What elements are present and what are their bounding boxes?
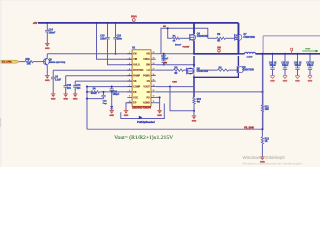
svg-text:104: 104 <box>67 87 72 90</box>
svg-text:19: 19 <box>153 58 155 60</box>
svg-text:100nF: 100nF <box>161 58 168 60</box>
svg-text:GND: GND <box>124 115 129 117</box>
svg-text:+5V: +5V <box>33 21 38 25</box>
svg-text:GND: GND <box>157 115 162 117</box>
svg-text:1: 1 <box>129 52 130 54</box>
svg-text:100uF: 100uF <box>269 65 276 67</box>
svg-text:FB: FB <box>133 92 136 94</box>
svg-text:GND: GND <box>63 99 68 101</box>
svg-text:49.9K: 49.9K <box>91 92 97 95</box>
svg-text:RAMP: RAMP <box>133 75 140 78</box>
svg-text:12: 12 <box>153 96 155 98</box>
svg-text:S8550-2(SOT23): S8550-2(SOT23) <box>49 62 66 64</box>
svg-text:13: 13 <box>153 90 155 92</box>
svg-text:HB: HB <box>146 54 150 56</box>
svg-text:BOOT: BOOT <box>175 44 182 46</box>
svg-text:CSD87350: CSD87350 <box>197 36 209 38</box>
svg-text:C14: C14 <box>49 29 54 32</box>
svg-text:0R: 0R <box>174 73 177 75</box>
svg-text:Vout= (R1/R2+1)x1.215V: Vout= (R1/R2+1)x1.215V <box>114 136 173 141</box>
svg-text:VCC: VCC <box>133 97 138 99</box>
svg-text:1K: 1K <box>265 141 268 143</box>
svg-text:3: 3 <box>129 63 130 65</box>
svg-text:1.5uH: 1.5uH <box>247 57 253 59</box>
svg-text:VCC5V: VCC5V <box>183 47 190 49</box>
svg-text:GND: GND <box>51 99 56 101</box>
svg-text:CSD87350: CSD87350 <box>197 71 209 73</box>
svg-text:Windows'u etkinleştirmek için: Windows'u etkinleştirmek için Ayarlar'a … <box>243 162 303 166</box>
svg-text:VDDA: VDDA <box>143 58 150 61</box>
svg-text:FB_5145: FB_5145 <box>244 126 254 129</box>
svg-text:4m: 4m <box>197 101 200 104</box>
svg-text:GND: GND <box>45 80 50 82</box>
svg-text:VIN: VIN <box>133 59 137 61</box>
svg-text:8: 8 <box>129 90 130 92</box>
svg-text:CS: CS <box>147 81 151 83</box>
svg-text:Cap: Cap <box>103 103 108 105</box>
svg-text:GND: GND <box>308 81 313 83</box>
svg-text:C11: C11 <box>76 85 81 87</box>
svg-text:EP: EP <box>133 103 137 105</box>
svg-text:VOUT: VOUT <box>143 87 150 89</box>
svg-text:100uF: 100uF <box>282 65 289 67</box>
svg-text:DC_CTRL: DC_CTRL <box>2 62 12 64</box>
svg-text:10K: 10K <box>265 109 270 111</box>
svg-text:R56: R56 <box>25 59 30 61</box>
svg-text:COMP: COMP <box>133 87 140 89</box>
svg-text:LM5145RGYR/NOPB: LM5145RGYR/NOPB <box>132 107 151 110</box>
svg-text:GND: GND <box>73 99 78 101</box>
svg-text:GND: GND <box>270 81 275 83</box>
svg-text:6: 6 <box>129 79 130 81</box>
svg-text:CSG: CSG <box>172 81 177 83</box>
svg-text:100pF: 100pF <box>113 94 120 96</box>
svg-text:AGND: AGND <box>143 102 150 105</box>
svg-text:EN: EN <box>133 54 137 56</box>
svg-text:SS: SS <box>133 81 137 83</box>
svg-text:9: 9 <box>129 96 130 98</box>
svg-text:RT/SYNC: RT/SYNC <box>133 70 143 72</box>
svg-text:C16: C16 <box>117 36 122 38</box>
svg-text:FB: FB <box>147 92 150 94</box>
svg-text:20: 20 <box>153 52 155 54</box>
svg-text:P5V0: P5V0 <box>131 16 137 18</box>
svg-text:UVLO: UVLO <box>133 65 140 67</box>
svg-text:18: 18 <box>153 63 155 65</box>
svg-text:15: 15 <box>153 79 155 81</box>
svg-text:220n: 220n <box>117 38 123 40</box>
svg-text:5: 5 <box>129 74 130 76</box>
svg-text:GND: GND <box>192 121 197 123</box>
svg-text:GND: GND <box>109 115 114 117</box>
svg-text:2: 2 <box>129 58 130 60</box>
svg-text:100nF: 100nF <box>49 32 56 34</box>
svg-text:GND: GND <box>283 81 288 83</box>
svg-text:HO: HO <box>163 26 166 28</box>
svg-text:C15: C15 <box>100 36 105 38</box>
svg-text:220n: 220n <box>100 38 106 40</box>
svg-text:C10: C10 <box>67 85 72 87</box>
svg-text:PullUpNeeded: PullUpNeeded <box>137 122 155 124</box>
svg-text:17: 17 <box>153 68 155 70</box>
svg-text:10K: 10K <box>27 64 32 66</box>
svg-text:11: 11 <box>153 101 155 103</box>
svg-text:16: 16 <box>153 74 155 76</box>
svg-text:CSD87350: CSD87350 <box>243 37 255 39</box>
svg-text:GND: GND <box>295 81 300 83</box>
svg-text:VOUT: VOUT <box>305 49 311 51</box>
svg-text:10: 10 <box>129 101 131 103</box>
svg-text:CSD87350: CSD87350 <box>242 69 254 71</box>
svg-text:PG: PG <box>146 97 150 99</box>
svg-text:GND: GND <box>45 48 50 50</box>
svg-text:100uF: 100uF <box>294 65 301 67</box>
svg-text:2.2uF: 2.2uF <box>55 80 62 82</box>
svg-text:Windows'u Etkinleştir: Windows'u Etkinleştir <box>243 155 286 160</box>
svg-text:PGND: PGND <box>143 76 150 78</box>
svg-text:100uF: 100uF <box>307 65 314 67</box>
svg-text:SW: SW <box>164 63 167 65</box>
svg-text:LO: LO <box>147 70 150 72</box>
svg-text:0R: 0R <box>217 41 220 43</box>
svg-text:7: 7 <box>129 85 130 87</box>
